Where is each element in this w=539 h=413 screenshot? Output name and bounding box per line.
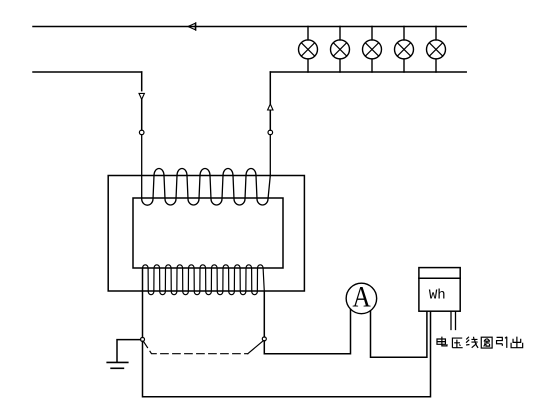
ground symbol — [107, 362, 128, 368]
lamp EL5 — [427, 27, 446, 73]
watt-hour meter Wh top strip line — [419, 277, 460, 279]
wire: ammeter right lead to Wh current coil — [371, 311, 427, 358]
wire: from node B down and right to ammeter — [264, 309, 350, 354]
glyph 圈 — [481, 337, 492, 348]
arrow: downward arrowhead on left drop — [139, 93, 144, 99]
wire: left drop from second line to transformer primary — [141, 72, 143, 130]
wire: from node A down, bottom return wire, up to Wh meter — [143, 311, 431, 396]
arrow: upward arrowhead on right drop — [268, 104, 273, 110]
wire: secondary right lead down to node B — [263, 292, 265, 337]
node A: left secondary node circle — [141, 337, 145, 341]
wire: top supply line L1 — [33, 26, 466, 28]
label: 电压线圈引出 (voltage coil lead-out) drawn glyphs — [437, 337, 523, 348]
wire: dashed link from node A — [143, 341, 247, 353]
node B: right secondary node circle — [262, 337, 266, 341]
transformer T primary winding — [142, 135, 271, 205]
transformer T core outer rectangle — [108, 176, 304, 292]
lamp EL4 — [395, 27, 414, 73]
glyph 线 — [466, 337, 478, 348]
lamp EL2 — [331, 27, 350, 73]
wire: secondary left lead down to node A — [142, 268, 144, 337]
wire: second supply line left segment — [33, 71, 142, 73]
svg-text:Wh: Wh — [429, 288, 446, 304]
ammeter PA circle — [346, 283, 377, 314]
wire: diagonal link up to node B — [248, 341, 263, 354]
glyph 引 — [497, 337, 507, 348]
glyph 出 — [511, 337, 523, 348]
watt-hour meter Wh body — [419, 268, 460, 312]
wire: second supply line right segment — [270, 71, 466, 73]
glyph 压 — [452, 338, 462, 348]
svg-text:A: A — [352, 281, 370, 314]
wire: ground tap from node A — [117, 340, 141, 362]
arrow: left-pointing arrowhead on top line — [188, 23, 196, 31]
transformer T secondary winding — [143, 265, 265, 295]
terminal: primary left terminal circle — [139, 130, 144, 135]
glyph 电 — [437, 337, 447, 346]
transformer T core inner window rectangle — [133, 198, 283, 268]
wire: right drop from second line to transformer primary — [269, 72, 271, 130]
lamp EL1 — [299, 27, 318, 73]
voltage coil lead-out stub 1 — [450, 311, 452, 329]
terminal: primary right terminal circle — [268, 130, 273, 135]
lamp EL3 — [363, 27, 382, 73]
voltage coil lead-out stub 2 — [455, 311, 457, 329]
